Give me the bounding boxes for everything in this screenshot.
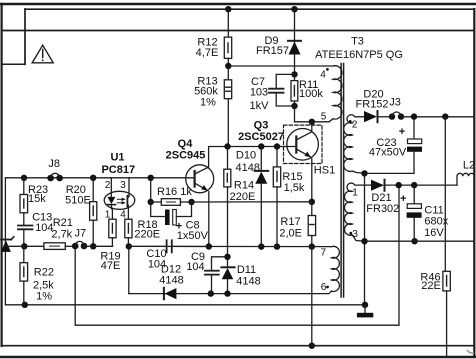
wire left vertical x=5.4 [4,178,6,305]
diode D10 [260,147,262,171]
wire base rail y=146.5 to Q3 [228,146,296,148]
wire R13 bottom to node [227,99,229,147]
scan artifact mark [467,350,474,353]
transformer T3 primary upper winding pins 4-5 [333,66,342,119]
resistor R16 [151,201,162,203]
node Q3 emitter / feedback wire [309,199,315,205]
diode D21 [371,180,384,191]
capacitor C11 electrolytic [413,185,415,204]
svg-text:4148: 4148 [236,162,260,174]
svg-text:100k: 100k [299,88,323,100]
svg-text:5: 5 [321,111,327,122]
svg-text:7: 7 [321,248,327,259]
resistor R18 [125,219,132,238]
node R17 bottom / pin7 rail [309,243,315,249]
node R13/R14 rail [224,143,230,149]
node bottom line [309,343,315,349]
svg-text:2SC945: 2SC945 [166,150,206,162]
svg-text:560k: 560k [194,85,218,97]
resistor R20 [92,178,94,202]
svg-text:104: 104 [186,261,204,273]
svg-text:T3: T3 [351,35,364,47]
svg-text:D11: D11 [237,264,256,276]
capacitor C7 [276,74,294,88]
node ground [362,302,368,308]
svg-text:1: 1 [352,188,358,199]
wire emitter rail y=246.6 [129,245,332,247]
svg-text:FR157: FR157 [256,45,289,57]
resistor R22 [23,246,25,262]
node D10 top [258,143,264,149]
svg-text:2,7k: 2,7k [51,229,72,241]
svg-text:Q3: Q3 [254,119,269,131]
svg-text:4: 4 [320,69,326,80]
warning triangle symbol [32,45,53,63]
wire upper frame line y=30.5 [2,30,474,32]
node D10 bottom [258,243,264,249]
svg-text:J7: J7 [74,227,86,239]
svg-text:D10: D10 [236,149,256,161]
wire rail to transformer pin4 y=66 [228,65,333,67]
svg-text:3: 3 [352,229,358,240]
svg-text:47E: 47E [101,260,121,272]
wire R16 branch vertical [150,178,152,202]
svg-text:4,7E: 4,7E [196,47,219,59]
svg-text:R14: R14 [234,179,254,191]
heatsink HS1 dashed box [284,125,323,163]
resistor R46 [443,271,450,291]
wire feedback y=202 to Q3 emitter [192,201,312,203]
transformer T3 secondary upper winding pin 2 [344,115,365,174]
node mid/bottom rail [361,238,367,244]
svg-text:510E: 510E [65,195,91,207]
node D11 bottom [224,290,230,296]
svg-text:1x50V: 1x50V [177,230,209,242]
svg-text:2,0E: 2,0E [279,227,302,239]
svg-text:4: 4 [120,209,126,220]
node L2/R46 branch [442,113,448,119]
node D9/C7/R11 top [291,71,297,77]
diode D20 [364,111,377,122]
wire Q3 emitter down [311,159,313,202]
svg-text:2SC5027: 2SC5027 [238,131,284,143]
resistor R12 [224,37,231,58]
svg-text:U1: U1 [110,152,124,164]
node C7/R11 bottom [291,103,297,109]
node pin5 / Q3 collector [309,119,315,125]
resistor R11 [294,74,296,80]
svg-text:1: 1 [105,209,111,220]
jumper J3 [389,113,395,119]
node R20 top [90,175,96,181]
resistor R15 [276,147,278,167]
resistor R14 [227,147,229,170]
svg-text:3: 3 [120,180,126,191]
ground symbol [364,305,366,313]
wire Q3 emitter to bottom line [311,247,313,346]
capacitor C13 [23,213,25,225]
transistor Q3 [287,129,319,161]
border frame right [473,9,475,357]
resistor R21 [44,243,65,250]
node C11 top [411,182,417,188]
svg-text:220E: 220E [230,191,256,203]
node R15 bottom [274,243,280,249]
wire bottom line y=345.7 [2,345,474,347]
wire top-left vertical x=25 [24,9,26,64]
svg-text:L2: L2 [463,159,475,171]
wire R18 node down to D12 line [128,246,130,293]
svg-text:PC817: PC817 [101,164,135,176]
transformer T3 primary lower winding pins 7-6 [332,246,340,291]
node C13 bottom / ref node [21,243,27,249]
wire R46 branch x=445.3 [444,117,446,272]
wire Q4 emitter down [208,192,210,247]
svg-text:220E: 220E [134,228,160,240]
wire left rail y=177.8 [5,177,194,179]
rail D21 output y=185 [364,184,371,186]
wire J7 drop to feedback line [75,185,399,325]
resistor R17 [311,202,313,216]
svg-text:ATEE16N7P5 QG: ATEE16N7P5 QG [315,49,403,61]
svg-text:47x50V: 47x50V [369,146,407,158]
wire top rail y=9 [25,8,474,10]
wire top-left stub to border y=64.3 [2,63,25,65]
capacitor C10 [166,240,168,252]
wire mid junction down to ground node [364,173,366,304]
svg-text:1%: 1% [36,290,52,302]
svg-text:22E: 22E [421,280,441,292]
node R16 left [148,199,154,205]
wire pin5 node into Q3 [311,122,313,132]
diode D11 [227,257,229,267]
node R20 bottom [90,243,96,249]
svg-text:R21: R21 [53,217,73,229]
svg-text:Q4: Q4 [178,138,194,150]
svg-text:J3: J3 [389,97,401,109]
node Q4 emitter / C10 junction [206,243,212,249]
svg-text:4148: 4148 [159,274,183,286]
wire C7R11 node to Q3 collector / pin5 [295,106,312,122]
node R18 bottom [126,243,132,249]
resistor R19 [111,209,113,219]
resistor R23 [23,178,25,195]
svg-text:103: 103 [250,87,268,99]
svg-text:C11: C11 [424,204,443,216]
transformer T3 core [340,64,342,298]
border frame top [0,3,476,5]
node R23 top [21,175,27,181]
wire Q4 collector to rail [209,147,228,167]
svg-text:J8: J8 [48,158,60,170]
svg-text:1kV: 1kV [250,100,270,112]
border frame left [1,4,3,346]
inductor L2 [457,173,474,185]
node C9 bottom [208,290,214,296]
svg-text:1,5k: 1,5k [284,182,305,194]
node top rail / R12 junction [225,6,231,12]
svg-text:FR152: FR152 [355,99,388,111]
svg-text:15k: 15k [28,193,46,205]
node R22 bottom [22,302,28,308]
wire ref node to zener [5,245,24,247]
resistor R13 [224,80,231,99]
svg-text:6: 6 [321,282,327,293]
svg-text:R17: R17 [280,216,300,228]
transistor Q4 [186,165,214,193]
svg-text:+: + [400,193,406,205]
svg-text:16V: 16V [424,227,444,239]
wire bottom secondary rail y=241.2 [365,240,474,242]
svg-text:+: + [399,126,405,138]
jumper J7 [72,243,79,250]
svg-text:FR302: FR302 [366,203,399,215]
wire D12 row y=293.6 handled; diode D12 [163,288,165,300]
wire R21 row y=246.3 [24,245,44,247]
node rail / R16 branch [148,175,154,181]
optocoupler U1 PC817 [104,191,135,209]
svg-text:680x: 680x [424,216,448,228]
svg-text:2: 2 [352,119,358,130]
node R16 right [188,199,194,205]
capacitor C9 [212,257,228,270]
svg-text:HS1: HS1 [314,165,335,177]
transformer T3 secondary lower winding pins 1-3 [345,183,365,241]
jumper J8 [47,175,54,182]
svg-text:2: 2 [105,180,111,191]
node D11 top / C9 tap [224,254,230,260]
node C11 bottom [411,238,417,244]
node R12/R13/primary rail junction [225,63,231,69]
diode D9 [294,9,296,74]
svg-text:4148: 4148 [236,275,260,287]
svg-text:1%: 1% [200,97,216,109]
wire bottom-left y=305 [5,304,365,306]
capacitor C8 [151,202,165,217]
svg-text:R22: R22 [34,267,54,279]
wire R18 node to C10 [129,245,166,247]
node top rail / D9 junction [291,6,297,12]
wire R12 top lead [227,9,229,37]
svg-text:R16 1k: R16 1k [157,186,192,198]
shunt regulator zener (TL431) [1,239,11,241]
border frame bottom [0,356,476,358]
node C23 top [411,113,417,119]
node D21 cathode / feedback branch [396,182,402,188]
capacitor C23 electrolytic [413,117,415,139]
wire R12-R13 [227,58,229,79]
wire R14 bottom down [227,187,229,257]
node R15 top [274,143,280,149]
node secondary mid junction [361,170,367,176]
